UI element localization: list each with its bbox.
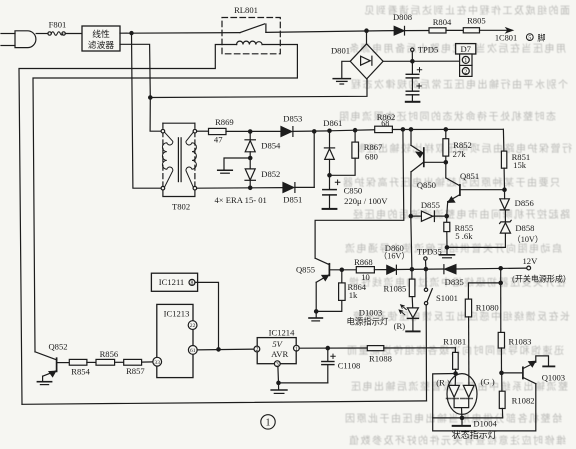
svg-text:D801: D801 <box>331 46 350 56</box>
svg-text:2: 2 <box>255 347 258 353</box>
IC1214 5V AVR <box>254 338 299 367</box>
capacitor C1108 <box>322 348 335 383</box>
svg-text:22: 22 <box>190 323 196 329</box>
svg-text:R1080: R1080 <box>476 303 499 313</box>
svg-text:5 .6k: 5 .6k <box>455 231 473 241</box>
node: R1080 branch <box>499 281 502 284</box>
node: D855/R855/Q851 emitter <box>445 214 448 217</box>
node: D860 / R1085 / Q850 collector branch <box>410 268 413 271</box>
svg-text:滤波器: 滤波器 <box>88 39 115 50</box>
node: Q855 base / R864 / R868 <box>340 268 343 271</box>
node: Q855 base feed tap <box>401 128 404 131</box>
svg-text:AVR: AVR <box>271 349 288 359</box>
svg-text:3: 3 <box>276 362 279 368</box>
svg-text:1k: 1k <box>349 290 358 300</box>
svg-text:TPD5: TPD5 <box>418 44 439 54</box>
svg-text:D858: D858 <box>515 223 534 233</box>
wire rail R862 to R851 <box>392 128 503 130</box>
wire rail tap down to Q855 collector <box>315 129 404 258</box>
diode D853 <box>281 127 330 137</box>
zener D860 <box>387 265 444 274</box>
resistor R1085 <box>409 269 415 308</box>
resistor R855 <box>444 216 450 247</box>
svg-text:(开关电源形成）: (开关电源形成） <box>512 274 571 284</box>
svg-text:R854: R854 <box>71 367 90 377</box>
wire Q850 collector down to this node <box>411 216 412 269</box>
resistor R1082 <box>433 373 505 418</box>
svg-text:D1003: D1003 <box>359 308 382 318</box>
wire relay to D808/bridge <box>266 31 394 33</box>
transistor Q855 <box>315 258 356 311</box>
terminal: 12V output <box>527 266 531 270</box>
svg-text:R857: R857 <box>126 366 145 376</box>
node: R1081 / red LED anode <box>454 372 457 375</box>
wire rail R869 to D853 <box>226 130 281 132</box>
resistor R1081 <box>453 348 459 386</box>
wire T802 secondary top to R869 <box>197 130 209 132</box>
ground (D1003) <box>406 330 419 332</box>
svg-text:680: 680 <box>365 152 378 162</box>
svg-text:(G ): (G ) <box>481 376 495 386</box>
svg-text:路起控开机瞬间由市电整流滤波后的电压经: 路起控开机瞬间由市电整流滤波后的电压经 <box>352 208 571 221</box>
svg-text:D851: D851 <box>283 195 302 205</box>
svg-text:只要由于某种原因引起输出电压升高保护器: 只要由于某种原因引起输出电压升高保护器 <box>342 176 561 189</box>
ground (C850 hot ground) <box>323 208 337 210</box>
wire junction down to T802 primary bottom <box>132 33 162 188</box>
node: R855/D858/ground <box>445 246 448 249</box>
svg-text:68: 68 <box>381 119 389 128</box>
svg-text:个别水平由行输出电压正常后的规律次态程: 个别水平由行输出电压正常后的规律次态程 <box>350 78 569 91</box>
resistor R869 <box>209 128 227 134</box>
bridge rectifier D801 <box>350 31 383 79</box>
IC1211 <box>151 273 197 291</box>
svg-text:电源指示灯: 电源指示灯 <box>346 317 388 327</box>
wire D851 up to rail <box>313 131 315 187</box>
svg-text:R856: R856 <box>100 349 119 359</box>
wire R855 node to D858 <box>447 233 505 247</box>
svg-text:脚: 脚 <box>537 32 545 42</box>
resistor R1083 <box>498 283 504 373</box>
wire coil right lead to Q852 collector rail <box>33 45 297 352</box>
relay RL801 dashed enclosure <box>222 18 280 54</box>
svg-text:R1083: R1083 <box>509 336 532 346</box>
ground (Q855 emitter) <box>309 311 322 321</box>
diode D851 <box>283 183 314 193</box>
svg-text:D854: D854 <box>261 140 281 150</box>
resistor R856 <box>96 359 124 365</box>
AC input plug P801 <box>1 31 36 48</box>
svg-text:1C801: 1C801 <box>495 33 517 42</box>
svg-text:2: 2 <box>464 69 467 75</box>
svg-text:D861: D861 <box>323 118 342 128</box>
node: bridge top feed junction <box>365 29 368 32</box>
svg-text:47: 47 <box>214 134 223 144</box>
node: D852 junction <box>249 186 252 189</box>
svg-text:8: 8 <box>191 281 194 287</box>
svg-text:R804: R804 <box>433 17 452 27</box>
svg-text:线性: 线性 <box>92 28 110 39</box>
node: IC1211/IC1213/IC1214 bus junction <box>217 348 220 351</box>
svg-text:Q852: Q852 <box>48 342 67 352</box>
transistor Q850 <box>411 129 446 216</box>
node: 12V branch junction <box>499 267 502 270</box>
svg-text:R869: R869 <box>215 117 234 127</box>
resistor R864 <box>339 270 346 301</box>
resistor R852 <box>443 129 449 162</box>
node: Q855 emitter / R864 return <box>315 310 318 313</box>
ground (IC1214 pin3) <box>271 383 287 394</box>
svg-text:15k: 15k <box>513 160 527 170</box>
svg-text:R1081: R1081 <box>443 336 466 346</box>
ground (D1004) <box>453 418 470 426</box>
ground (Q1003 emitter) <box>543 365 554 367</box>
zener D858 <box>500 210 512 233</box>
svg-text:33: 33 <box>154 360 160 366</box>
resistor R804 <box>429 28 446 33</box>
wire to Q1003 base <box>502 372 523 374</box>
wire IC1213 pin61 to IC1214 pin2 <box>197 348 254 351</box>
svg-text:(R): (R) <box>394 321 406 331</box>
node: R867 tap <box>353 129 356 132</box>
transformer T802 <box>161 123 197 196</box>
LED D1003 power indicator <box>399 305 418 331</box>
svg-text:R1085: R1085 <box>383 284 406 294</box>
svg-text:C850: C850 <box>344 186 363 196</box>
svg-text:1: 1 <box>464 58 467 64</box>
svg-text:4× ERA 15- 01: 4× ERA 15- 01 <box>215 195 267 205</box>
svg-text:Q855: Q855 <box>296 264 315 274</box>
svg-text:（10V）: （10V） <box>513 235 543 244</box>
svg-text:T802: T802 <box>172 202 190 212</box>
diode D861 <box>324 131 334 176</box>
capacitor C850 <box>323 175 340 208</box>
svg-text:D853: D853 <box>283 114 302 124</box>
relay switch contact <box>240 24 266 33</box>
svg-text:R867: R867 <box>364 142 383 152</box>
svg-text:10: 10 <box>361 272 370 282</box>
node: TPD35 / S1001 tap <box>424 267 427 270</box>
transistor Q851 <box>446 162 505 216</box>
node: sheet number 1 <box>261 415 275 429</box>
wire bridge + output to connector D7 <box>383 60 459 62</box>
wire T802 secondary bottom to D851 <box>197 187 283 190</box>
wire IC1214 pin1 to R1088 <box>299 347 367 349</box>
line filter box 线性滤波器 <box>82 26 120 51</box>
wire filter to relay (AC line 1) <box>120 32 240 35</box>
resistor R867 <box>330 130 359 175</box>
resistor R868 <box>356 267 387 273</box>
wire coil left lead to left rail <box>19 45 237 405</box>
svg-text:（16V）: （16V） <box>379 252 409 261</box>
svg-text:220μ / 100V: 220μ / 100V <box>344 196 388 206</box>
node: R852/Q850 base/Q851 collector <box>444 161 447 164</box>
diode D835 <box>444 265 527 274</box>
svg-text:R805: R805 <box>467 16 486 26</box>
svg-text:5: 5 <box>528 36 531 42</box>
wire S1001 to relay coil return (bottom bus) <box>22 401 427 404</box>
resistor R857 <box>124 359 153 365</box>
ground (secondary center) <box>218 158 251 173</box>
capacitor C1 (main filter, upper) <box>406 61 421 78</box>
svg-text:R1088: R1088 <box>369 354 392 364</box>
svg-text:D852: D852 <box>261 169 280 179</box>
wire IC1214 pin3 down <box>277 367 280 383</box>
switch S1001 <box>424 269 432 401</box>
dual LED D1004 status indicator <box>447 374 478 418</box>
svg-text:D1004: D1004 <box>473 419 497 429</box>
svg-text:D835: D835 <box>445 277 464 287</box>
svg-text:状态指示灯: 状态指示灯 <box>452 429 497 440</box>
transistor Q852 <box>35 352 69 381</box>
wire C1108 to IC1214 pin3 <box>279 382 328 384</box>
resistor R862 <box>375 126 393 132</box>
svg-text:(R ): (R ) <box>436 378 450 388</box>
relay coil <box>237 41 262 44</box>
wire rail to R862 <box>330 130 375 131</box>
svg-text:D808: D808 <box>393 12 412 22</box>
svg-text:S1001: S1001 <box>436 293 458 303</box>
ground (filter caps) <box>406 95 420 102</box>
node: Q850 emitter tap <box>409 128 412 131</box>
svg-text:1: 1 <box>295 346 298 352</box>
zener D856 <box>500 190 510 210</box>
node: Q851 base / R851 / D856 <box>503 188 506 191</box>
wire IC1211 pin8 to standby bus <box>195 282 219 349</box>
wire AC line2 down to T802 primary top <box>150 98 161 132</box>
svg-text:Q1003: Q1003 <box>542 373 565 383</box>
test point TPD35 <box>424 257 427 269</box>
svg-text:RL801: RL801 <box>234 5 258 15</box>
diode D852 <box>245 158 255 188</box>
svg-text:IC1214: IC1214 <box>269 328 295 338</box>
resistor R1080 <box>465 299 471 385</box>
fuse F801 <box>36 32 82 36</box>
transistor Q1003 <box>433 356 549 431</box>
node: D854 tap <box>249 130 252 133</box>
ground (bridge negative) <box>333 61 350 84</box>
svg-text:IC1211: IC1211 <box>159 277 184 287</box>
svg-text:12V: 12V <box>522 256 538 266</box>
node: rectifier output join <box>313 130 316 133</box>
svg-text:R868: R868 <box>354 257 373 267</box>
node: AC line2 junction <box>149 96 152 99</box>
IC1213 <box>153 304 197 377</box>
wire to IC801 pin5 arrow <box>480 28 513 32</box>
node: D861 tap <box>328 129 331 132</box>
node: C1108 tap <box>326 346 329 349</box>
node: D861/C850 junction <box>328 174 331 177</box>
diode D854 <box>245 132 255 159</box>
connector D7 outline <box>456 44 476 54</box>
ground (Q852 emitter) <box>37 382 51 385</box>
test point TPD5 <box>411 48 414 61</box>
svg-text:1: 1 <box>266 417 271 428</box>
wire 12V node down / R1080 branch <box>500 268 502 283</box>
wire filter to AC line 2 drop <box>120 44 150 97</box>
wire Q855 emitter to R864 bottom <box>316 300 342 311</box>
svg-text:IC1213: IC1213 <box>164 309 190 319</box>
node: D854/D852 junction <box>249 156 252 159</box>
resistor R805 <box>463 28 479 33</box>
wire to R1080 <box>468 283 500 299</box>
node: pin3 ground junction <box>277 381 280 384</box>
node: TPD5 junction <box>411 60 414 63</box>
svg-text:C1108: C1108 <box>338 361 361 371</box>
capacitor C2 (main filter, lower) <box>406 78 421 95</box>
svg-text:F801: F801 <box>49 20 67 30</box>
ground (R855) <box>440 247 455 257</box>
diode D808 <box>394 26 429 35</box>
svg-text:Q850: Q850 <box>417 180 436 190</box>
node: Q850 collector / D855 <box>409 214 412 217</box>
svg-text:D856: D856 <box>515 198 535 208</box>
resistor R1088 <box>367 346 455 351</box>
diode D855 <box>411 211 447 222</box>
svg-text:TPD35: TPD35 <box>417 247 442 257</box>
resistor R854 <box>69 359 96 365</box>
node: R1083 / Q1003 base / R1082 <box>500 371 503 374</box>
node: D1004 common cathode <box>460 416 463 419</box>
svg-text:27k: 27k <box>453 149 467 159</box>
faint bleed-through page texture (decorative) <box>338 4 573 447</box>
svg-text:61: 61 <box>190 348 196 354</box>
node: R852 tap <box>444 128 447 131</box>
svg-text:态时整机处于待命状态的同时还由限流电阻: 态时整机处于待命状态的同时还由限流电阻 <box>338 110 557 123</box>
svg-text:D7: D7 <box>460 44 471 54</box>
node: junction AC line1 to T802 primary <box>130 31 133 34</box>
svg-text:D855: D855 <box>421 200 440 210</box>
connector D7 pin cells <box>460 54 472 76</box>
wire AC line2 to bridge bottom <box>150 79 367 98</box>
resistor R851 <box>501 129 506 189</box>
svg-text:Q851: Q851 <box>460 171 479 181</box>
svg-text:R1082: R1082 <box>512 395 535 405</box>
